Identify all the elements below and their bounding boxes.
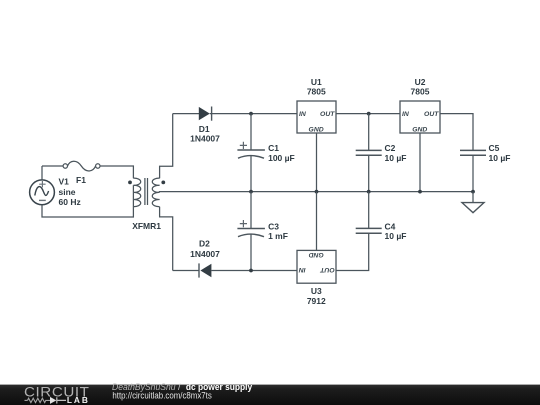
svg-text:10 µF: 10 µF bbox=[385, 153, 407, 163]
fuse F1 bbox=[63, 161, 100, 171]
transformer XFMR1 secondary winding bbox=[152, 178, 159, 206]
wire U1 out to U2 bbox=[336, 113, 400, 115]
svg-text:D2: D2 bbox=[199, 239, 210, 249]
wire U2 GND bbox=[419, 133, 421, 192]
svg-text:http://circuitlab.com/c8mx7ts: http://circuitlab.com/c8mx7ts bbox=[112, 390, 212, 400]
logo resistor bbox=[28, 398, 51, 402]
svg-text:7912: 7912 bbox=[307, 296, 326, 306]
svg-text:1N4007: 1N4007 bbox=[190, 249, 220, 259]
diode D1 bbox=[199, 107, 212, 121]
svg-text:C3: C3 bbox=[268, 221, 279, 231]
node C2 top junction bbox=[367, 112, 371, 116]
svg-text:C2: C2 bbox=[385, 143, 396, 153]
svg-text:1N4007: 1N4007 bbox=[190, 133, 220, 143]
capacitor C5 bbox=[460, 150, 486, 191]
svg-text:XFMR1: XFMR1 bbox=[132, 221, 161, 231]
op-amp U2 box bbox=[400, 101, 440, 133]
svg-text:V1: V1 bbox=[59, 177, 70, 187]
svg-text:1 mF: 1 mF bbox=[268, 231, 288, 241]
node middle rail junction C2 bbox=[367, 190, 371, 194]
diode D2 bbox=[199, 263, 211, 277]
svg-text:F1: F1 bbox=[76, 175, 86, 185]
svg-text:OUT: OUT bbox=[319, 266, 334, 273]
svg-text:60 Hz: 60 Hz bbox=[59, 197, 81, 207]
node middle rail junction C5 bbox=[471, 190, 475, 194]
wire center tap middle rail bbox=[159, 191, 473, 193]
svg-text:7805: 7805 bbox=[307, 87, 326, 97]
capacitor C3 bbox=[237, 192, 265, 271]
footer bar bbox=[0, 385, 540, 405]
svg-text:GND: GND bbox=[412, 127, 427, 134]
svg-text:OUT: OUT bbox=[424, 111, 439, 118]
transformer secondary dot bbox=[161, 181, 165, 185]
capacitor C2 bbox=[356, 114, 382, 192]
voltage source V1 bbox=[30, 180, 55, 205]
svg-text:D1: D1 bbox=[199, 124, 210, 134]
wire secondary top tap riser bbox=[160, 114, 173, 179]
svg-text:7805: 7805 bbox=[411, 87, 430, 97]
transformer XFMR1 primary winding bbox=[133, 178, 140, 206]
wire U1 GND bbox=[316, 133, 318, 192]
wire top-left to fuse bbox=[42, 165, 63, 167]
svg-text:GND: GND bbox=[309, 127, 324, 134]
node middle rail junction U2 bbox=[418, 190, 422, 194]
svg-text:10 µF: 10 µF bbox=[489, 153, 511, 163]
wire V1 top lead bbox=[41, 166, 43, 180]
svg-text:U3: U3 bbox=[311, 286, 322, 296]
capacitor C4 bbox=[336, 192, 382, 271]
svg-text:LAB: LAB bbox=[67, 395, 90, 405]
svg-text:IN: IN bbox=[298, 266, 306, 273]
svg-text:IN: IN bbox=[402, 111, 410, 118]
transformer primary dot bbox=[128, 181, 132, 185]
logo schematic wire bbox=[25, 399, 28, 401]
svg-text:100 µF: 100 µF bbox=[268, 153, 295, 163]
wire D2 to U3 bbox=[211, 270, 297, 272]
wire fuse to transformer bbox=[100, 166, 133, 178]
node middle rail junction C1 bbox=[249, 190, 253, 194]
wire U2 out to C5 bbox=[440, 114, 473, 151]
transformer core bbox=[145, 178, 148, 205]
svg-text:C4: C4 bbox=[385, 221, 396, 231]
wire primary bottom to V1 bbox=[42, 185, 133, 217]
wire D1 to U1 bbox=[210, 113, 297, 115]
svg-text:OUT: OUT bbox=[320, 111, 335, 118]
ground bbox=[462, 192, 484, 213]
capacitor C1 bbox=[237, 114, 265, 192]
svg-text:sine: sine bbox=[59, 187, 76, 197]
wire top rail to D1 bbox=[173, 113, 199, 115]
svg-text:C5: C5 bbox=[489, 143, 500, 153]
op-amp U1 box bbox=[297, 101, 336, 133]
svg-text:10 µF: 10 µF bbox=[385, 231, 407, 241]
node middle rail junction U1 bbox=[315, 190, 319, 194]
svg-text:C1: C1 bbox=[268, 143, 279, 153]
op-amp U3 box bbox=[297, 250, 336, 283]
node C1 top junction bbox=[249, 112, 253, 116]
svg-text:GND: GND bbox=[309, 251, 324, 258]
wire bottom rail to D2 bbox=[173, 270, 199, 272]
wire U3 GND riser bbox=[316, 192, 318, 251]
svg-text:IN: IN bbox=[299, 111, 307, 118]
logo diode bbox=[50, 397, 66, 404]
node C3 bottom junction bbox=[249, 269, 253, 273]
wire secondary bottom tap riser bbox=[160, 207, 173, 271]
